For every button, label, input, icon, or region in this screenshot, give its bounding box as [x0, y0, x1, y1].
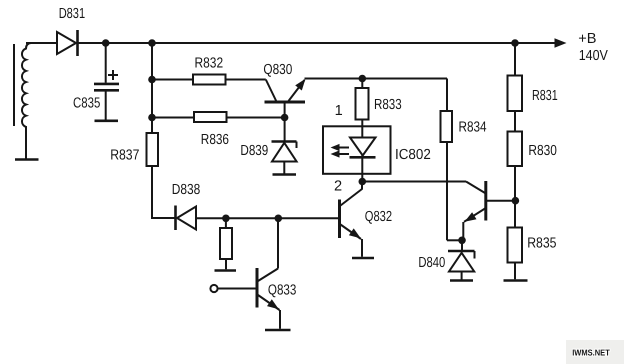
- ground (bias resistor): [215, 269, 237, 272]
- resistor R836: [194, 112, 227, 122]
- node dot (C835 tap): [102, 39, 110, 47]
- transistor Q833: [218, 218, 281, 328]
- resistor R833: [356, 79, 369, 127]
- light emission arrows: [331, 144, 350, 158]
- diode D831: [57, 30, 78, 56]
- transformer core line: [13, 44, 15, 126]
- node dot (R836 tap): [148, 114, 156, 122]
- resistor R835: [508, 228, 523, 263]
- svg-text:D831: D831: [59, 6, 85, 22]
- optocoupler IC802 box: [323, 126, 391, 174]
- wire R830 to base node: [514, 166, 516, 228]
- svg-text:Q830: Q830: [263, 62, 292, 78]
- node dot (Q830 base / D839): [281, 114, 289, 122]
- resistor (unlabeled bias): [220, 218, 232, 269]
- svg-text:Q832: Q832: [365, 209, 392, 225]
- resistor R831: [508, 76, 523, 112]
- svg-text:D840: D840: [418, 255, 445, 271]
- wire R835 to ground: [514, 263, 516, 280]
- node dot (left branch tap): [148, 39, 156, 47]
- node dot (R833 tap): [359, 75, 367, 83]
- svg-text:R832: R832: [195, 56, 224, 72]
- svg-text:R835: R835: [527, 236, 556, 252]
- capacitor C835: [94, 43, 119, 120]
- svg-text:R831: R831: [532, 88, 558, 104]
- svg-text:R837: R837: [110, 147, 139, 163]
- zener diode D840: [448, 240, 475, 279]
- wire left branch column: [151, 43, 153, 133]
- wire +B rail: [79, 42, 557, 44]
- resistor R834: [441, 79, 463, 241]
- ground (C835): [95, 120, 119, 123]
- node dot (bias resistor tap): [222, 215, 230, 223]
- wire IC802 pin2 lead: [361, 174, 363, 182]
- svg-text:2: 2: [334, 179, 342, 195]
- svg-text:C835: C835: [73, 96, 100, 112]
- transistor (pass regulator, unlabeled): [463, 181, 515, 240]
- wire R831 to R830: [514, 111, 516, 132]
- node dot (Q833 collector tap): [275, 215, 283, 223]
- svg-text:D838: D838: [172, 182, 201, 198]
- ground (D840): [450, 279, 473, 282]
- wire R836 left lead: [152, 117, 194, 119]
- resistor R830: [508, 132, 523, 167]
- node dot (D840 / emitter): [458, 237, 466, 245]
- zener diode D839: [272, 118, 297, 174]
- wire coil top to D831 anode: [26, 42, 57, 44]
- svg-text:R834: R834: [459, 120, 487, 136]
- transformer winding T coil: [22, 43, 31, 159]
- watermark background: [566, 340, 624, 364]
- resistor R832: [193, 75, 226, 85]
- node dot (R831 chain tap): [511, 39, 519, 47]
- svg-text:IWMS.NET: IWMS.NET: [572, 348, 610, 358]
- wire R832 right lead: [226, 79, 266, 81]
- resistor R837: [147, 133, 159, 166]
- transistor Q832: [340, 182, 363, 257]
- wire right column top: [514, 43, 516, 76]
- input terminal circle: [210, 285, 217, 292]
- svg-text:D839: D839: [240, 143, 268, 159]
- svg-text:140V: 140V: [579, 48, 608, 64]
- wire R832 left lead: [152, 79, 193, 81]
- ground (Q833): [265, 329, 291, 332]
- arrowhead +B output: [555, 38, 567, 48]
- ground (R835): [504, 279, 528, 282]
- ground (Q832): [352, 257, 374, 260]
- wire R837 bottom to D838: [152, 166, 175, 218]
- polarity + mark: [108, 70, 118, 80]
- svg-text:IC802: IC802: [395, 147, 431, 163]
- svg-text:Q833: Q833: [268, 283, 297, 299]
- svg-text:R833: R833: [374, 97, 402, 113]
- wire D838 to Q832 base: [196, 217, 338, 219]
- svg-text:+B: +B: [578, 31, 596, 47]
- ground (winding): [15, 158, 39, 161]
- diode D838: [176, 206, 197, 231]
- ground (D839): [273, 173, 297, 176]
- svg-text:R836: R836: [201, 132, 229, 148]
- svg-text:1: 1: [335, 103, 343, 119]
- LED inside IC802: [350, 126, 376, 174]
- node dot (pin 2): [359, 178, 367, 186]
- svg-text:R830: R830: [528, 143, 557, 159]
- node dot (divider / base): [512, 197, 520, 205]
- wire Q830 emitter to R834 top: [305, 78, 448, 80]
- wire pin2 to pass transistor collector: [362, 181, 466, 183]
- transistor Q830: [265, 79, 306, 118]
- wire R836 right lead: [227, 117, 285, 119]
- node dot (R832 tap): [148, 76, 156, 84]
